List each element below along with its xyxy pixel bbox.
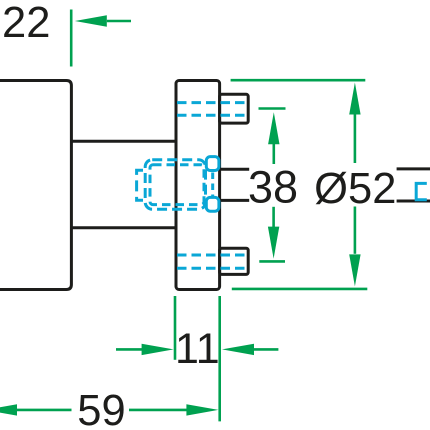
- svg-text:59: 59: [77, 387, 125, 430]
- dim 52 down arrow: [354, 207, 357, 254]
- dim 59 left arrow (cut): [0, 404, 17, 415]
- dim 22 arrow: [75, 15, 107, 26]
- spindle stub bottom line: [220, 199, 250, 202]
- dim 38 top tick: [259, 107, 286, 110]
- spindle hub inner hidden outline: [150, 165, 204, 205]
- dim 52 up arrow: [349, 83, 360, 115]
- knob body outline: [0, 81, 71, 290]
- dim 52 top extension line: [231, 79, 366, 82]
- bottom lug hole hidden lines: [177, 255, 248, 268]
- dim 59 right arrow: [186, 404, 218, 415]
- dim 11 left arrow: [116, 348, 144, 351]
- bottom lug: [220, 248, 249, 274]
- svg-text:38: 38: [248, 161, 298, 212]
- dim 22 extension line: [70, 10, 73, 67]
- right part bottom line: [397, 200, 430, 203]
- svg-text:22: 22: [2, 0, 50, 47]
- spindle hub outer hidden outline: [145, 160, 205, 209]
- screw head top hidden: [206, 157, 219, 171]
- spindle stub top line: [220, 168, 250, 171]
- dim 52 bottom extension line: [232, 288, 367, 291]
- dim 11 right extension line: [218, 296, 221, 421]
- dim 11 right arrow: [222, 344, 254, 355]
- top lug hole hidden lines: [177, 103, 248, 116]
- spindle end hidden bracket: [137, 170, 143, 200]
- svg-text:11: 11: [175, 325, 220, 373]
- rose plate outline: [176, 81, 220, 290]
- neck bottom edge: [71, 226, 175, 229]
- dim 11 left extension line: [174, 296, 177, 360]
- screw hole hidden line: [211, 173, 214, 198]
- right part hidden bracket: [416, 183, 427, 199]
- dim 38 bottom tick: [259, 260, 285, 263]
- dim 38 down arrow: [272, 207, 275, 227]
- dim 59 line right segment: [129, 409, 187, 412]
- dim 59 line left segment: [16, 409, 72, 412]
- neck top edge: [71, 140, 175, 143]
- top lug: [220, 94, 249, 123]
- dim 38 up arrow: [268, 112, 279, 144]
- svg-text:Ø52: Ø52: [314, 165, 396, 213]
- right part top line: [397, 167, 430, 170]
- screw head bottom hidden: [206, 197, 219, 211]
